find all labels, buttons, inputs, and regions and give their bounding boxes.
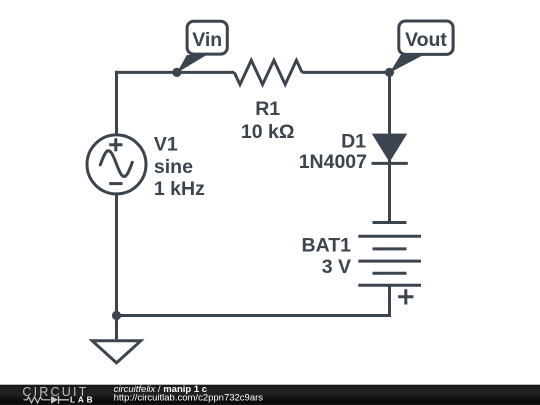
V1 minus sign (109, 182, 122, 185)
svg-text:3 V: 3 V (322, 256, 351, 278)
wire bottom (right corner to ground node) (117, 314, 392, 317)
svg-text:1N4007: 1N4007 (299, 151, 367, 173)
logo resistor zigzag glyph (24, 397, 51, 403)
node ground dot (112, 311, 121, 320)
logo diode glyph (51, 396, 58, 404)
wire right rail (battery bottom to corner) (388, 285, 391, 315)
logo diode bar glyph (59, 396, 70, 404)
svg-text:V1: V1 (154, 134, 178, 156)
battery plate short 2 (373, 247, 407, 250)
svg-text:sine: sine (154, 156, 193, 178)
battery BAT1 plates (358, 223, 421, 286)
battery plate long 2 (358, 260, 421, 263)
Vout callout box (399, 21, 453, 54)
battery plate long 3 (358, 284, 421, 287)
resistor R1 (234, 60, 302, 84)
wire right rail (Vout node to diode to battery top) (388, 72, 391, 222)
voltage source V1 circle (87, 135, 146, 194)
node Vout dot (385, 68, 394, 77)
svg-text:BAT1: BAT1 (302, 235, 352, 257)
battery plus sign (398, 289, 413, 304)
footer bar top highlight line (0, 384, 540, 386)
svg-text:1 kHz: 1 kHz (154, 178, 205, 200)
svg-text:Vout: Vout (405, 29, 447, 51)
svg-text:10 kΩ: 10 kΩ (241, 121, 295, 143)
ground symbol (92, 341, 141, 363)
battery plate long 1 (358, 235, 421, 238)
svg-text:LAB: LAB (70, 395, 95, 405)
battery plate short 3 (373, 272, 407, 275)
footer bar (0, 384, 540, 405)
diode D1 cathode bar (372, 162, 408, 165)
V1 sine symbol (100, 151, 132, 177)
Vin callout tail (177, 55, 207, 73)
diode D1 triangle (372, 134, 407, 163)
battery plate short 1 (373, 221, 407, 224)
wire left rail (top corner to V1 to bottom node to ground stub) (115, 71, 118, 339)
node Vin dot (172, 68, 181, 77)
svg-text:D1: D1 (341, 131, 366, 153)
svg-text:Vin: Vin (192, 29, 222, 51)
Vin callout box (187, 21, 227, 54)
V1 plus sign (109, 138, 122, 151)
wire top (corner to resistor) (115, 71, 234, 74)
svg-text:R1: R1 (255, 98, 280, 120)
svg-text:http://circuitlab.com/c2ppn732: http://circuitlab.com/c2ppn732c9ars (114, 392, 264, 403)
wire top (resistor to Vout node) (302, 71, 390, 74)
Vout callout tail (390, 55, 424, 73)
